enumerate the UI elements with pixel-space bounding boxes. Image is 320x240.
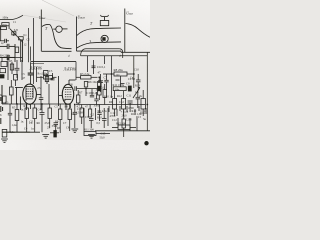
svg-text:Uвых: Uвых: [126, 12, 133, 16]
svg-text:R15 30б: R15 30б: [116, 122, 126, 126]
svg-text:R4 220к: R4 220к: [0, 54, 11, 58]
svg-text:R6 10к: R6 10к: [88, 80, 97, 84]
svg-text:200к: 200к: [2, 23, 8, 26]
svg-text:3: 3: [89, 40, 91, 44]
svg-text:R8 20к: R8 20к: [114, 68, 124, 72]
svg-text:R6: R6: [37, 121, 41, 125]
svg-text:C3: C3: [5, 101, 9, 105]
svg-text:Uвых: Uвых: [78, 16, 86, 20]
svg-text:R10 1м: R10 1м: [104, 95, 113, 99]
svg-text:C5: C5: [55, 105, 59, 109]
svg-text:3300: 3300: [94, 104, 100, 108]
svg-text:0,5: 0,5: [97, 121, 101, 125]
svg-text:R8: R8: [65, 105, 69, 109]
svg-text:Сб: Сб: [30, 120, 34, 124]
svg-text:1,2к: 1,2к: [12, 123, 18, 127]
svg-text:R13: R13: [135, 84, 140, 88]
svg-text:R5: R5: [12, 106, 16, 110]
svg-text:C9: C9: [126, 82, 130, 86]
svg-text:R5: R5: [9, 59, 13, 63]
svg-text:0,1: 0,1: [23, 34, 27, 37]
svg-text:Rб: Rб: [57, 126, 61, 130]
svg-text:4,7: 4,7: [1, 41, 5, 45]
svg-text:Л3EF80: Л3EF80: [63, 68, 76, 72]
svg-text:25,0: 25,0: [45, 121, 51, 125]
svg-text:R12: R12: [117, 94, 122, 98]
svg-text:R7: R7: [79, 91, 83, 95]
svg-text:0,5: 0,5: [91, 113, 95, 117]
svg-text:Uвых: Uвых: [39, 16, 46, 20]
svg-text:C11: C11: [127, 94, 132, 98]
svg-text:6,3в: 6,3в: [10, 130, 16, 134]
svg-text:C12: C12: [119, 100, 124, 104]
svg-text:R11 306: R11 306: [84, 128, 94, 132]
svg-text:R9: R9: [109, 100, 113, 104]
svg-text:0,1: 0,1: [101, 86, 105, 90]
svg-text:C4: C4: [38, 108, 42, 112]
svg-text:R9 4,7к: R9 4,7к: [98, 109, 108, 113]
svg-text:C7: C7: [63, 121, 67, 125]
svg-text:50,0: 50,0: [100, 136, 106, 140]
svg-text:R12: R12: [132, 109, 137, 113]
svg-text:R7: R7: [24, 104, 28, 108]
svg-text:С8: С8: [66, 126, 70, 130]
svg-text:1200: 1200: [126, 118, 132, 122]
svg-text:R13: R13: [136, 115, 141, 119]
svg-text:С4: С4: [24, 127, 28, 131]
svg-text:C7: C7: [104, 76, 108, 80]
svg-text:C8: C8: [69, 83, 73, 87]
svg-text:C5: C5: [49, 69, 53, 73]
svg-text:R11 150к: R11 150к: [113, 83, 125, 87]
svg-text:25: 25: [37, 86, 41, 90]
svg-text:С10: С10: [134, 68, 139, 72]
svg-text:100к: 100к: [2, 15, 9, 19]
svg-text:150к: 150к: [115, 88, 121, 91]
svg-text:C9 68: C9 68: [128, 77, 136, 81]
